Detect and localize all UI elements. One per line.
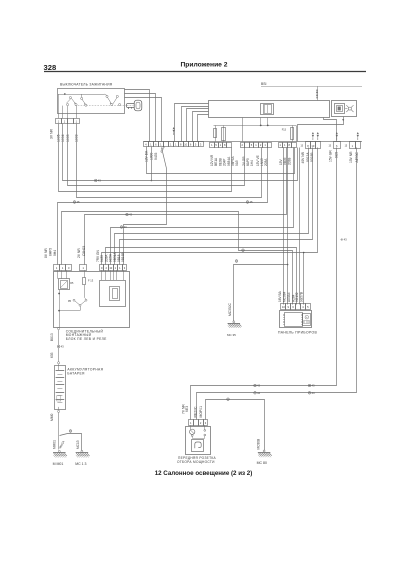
wire labels under right pins a xyxy=(301,151,314,163)
svg-text:9G57B: 9G57B xyxy=(299,292,303,302)
socket connector strip xyxy=(189,420,194,426)
svg-text:⊕ 43: ⊕ 43 xyxy=(341,237,348,241)
block internal connector square xyxy=(100,281,126,307)
svg-text:F13: F13 xyxy=(282,129,287,132)
BSI top line xyxy=(261,86,362,88)
svg-text:MM01: MM01 xyxy=(52,440,56,449)
ground branch to MC13 xyxy=(52,430,81,451)
battery label xyxy=(67,367,103,375)
svg-text:C8H15: C8H15 xyxy=(82,246,86,256)
block pin labels g1 xyxy=(44,248,57,258)
svg-text:БАТАРЕЯ: БАТАРЕЯ xyxy=(67,371,85,375)
svg-text:43: 43 xyxy=(61,345,65,349)
svg-text:ВЫКЛЮЧАТЕЛЬ ЗАЖИГАНИЯ: ВЫКЛЮЧАТЕЛЬ ЗАЖИГАНИЯ xyxy=(60,83,113,87)
BSI connector pin right b xyxy=(334,142,341,149)
ignition wire labels xyxy=(50,128,79,142)
wire labels under right pins c xyxy=(349,151,359,163)
splice arrows above pin 173 xyxy=(173,127,175,129)
block internal relay xyxy=(58,270,75,289)
svg-text:2V NR: 2V NR xyxy=(77,248,81,258)
fuse F13 bsi xyxy=(282,125,294,141)
wire panel col2 with MC35 tap xyxy=(287,148,289,305)
svg-text:43: 43 xyxy=(257,384,261,388)
battery box xyxy=(55,366,66,410)
svg-text:MC35JC: MC35JC xyxy=(228,303,232,316)
wire labels under S2a xyxy=(210,154,239,166)
BSI unit box xyxy=(209,101,330,118)
ignition switch box xyxy=(58,89,125,114)
panel connector strip xyxy=(281,304,286,310)
svg-text:MM0: MM0 xyxy=(50,414,54,421)
svg-text:PR: PR xyxy=(68,301,72,303)
panel connector labels xyxy=(278,290,303,302)
wires ignition box to pins xyxy=(59,106,77,119)
wire block pin g3p3 band y229 xyxy=(111,148,294,265)
wire BSI left edge loop g xyxy=(193,112,209,142)
svg-text:9A5: 9A5 xyxy=(235,160,239,166)
socket heater element xyxy=(192,440,204,452)
svg-text:МС 80: МС 80 xyxy=(257,461,267,465)
wire S1 pin down band y173 xyxy=(147,147,295,174)
block internal connector feed wires xyxy=(102,270,124,280)
svg-text:12 Салонное освещение (2 из 2): 12 Салонное освещение (2 из 2) xyxy=(155,470,253,477)
svg-text:44: 44 xyxy=(312,391,316,395)
wire ground MC35 xyxy=(228,260,288,322)
svg-text:BSI: BSI xyxy=(261,82,267,86)
header rule xyxy=(44,71,366,73)
wire BSI box to right pin xyxy=(324,118,337,142)
BSI connector strip S2a xyxy=(210,143,215,148)
wire BSI left edge loop f xyxy=(187,109,209,142)
BSI connector pins right c xyxy=(350,142,356,149)
block connector strip g1 xyxy=(54,265,60,271)
block connector strip g3 xyxy=(100,265,104,271)
svg-text:MOP01: MOP01 xyxy=(199,406,203,418)
panel internal connector xyxy=(283,313,303,327)
svg-text:RE20C: RE20C xyxy=(194,406,198,417)
wire panel col1 xyxy=(283,148,285,305)
wire block pin g3p4 band y235 xyxy=(115,148,309,265)
ground MC80 xyxy=(257,439,272,465)
svg-text:43: 43 xyxy=(312,384,316,388)
wire BSI left edge loop e xyxy=(182,107,209,142)
ground MC35 xyxy=(227,321,241,337)
BSI internal relay xyxy=(261,104,274,115)
BSI internal bus xyxy=(214,118,297,142)
BSI accessory icon box xyxy=(332,101,357,117)
block connector strip g2 xyxy=(80,265,87,271)
splice arrows right c xyxy=(357,132,359,134)
wire block pin g3p1 band y252 to panel xyxy=(102,148,318,305)
svg-text:VE3: VE3 xyxy=(185,406,189,412)
block bottom terminal xyxy=(50,328,60,346)
splice arrows right a xyxy=(312,132,314,134)
relay coil element xyxy=(222,125,226,141)
wire BSI left edge loop h xyxy=(198,115,209,142)
socket box xyxy=(186,427,211,455)
wire ignition pin4 band y197 xyxy=(77,124,262,198)
svg-text:MC084: MC084 xyxy=(282,291,286,302)
svg-text:F 13: F 13 xyxy=(88,279,94,283)
svg-text:44: 44 xyxy=(257,391,261,395)
wire ignition to BSI pin a xyxy=(125,90,150,142)
instrument panel box xyxy=(280,311,312,328)
wire block pin g1p1 band y202 xyxy=(58,148,268,265)
ground MM01 xyxy=(53,450,67,466)
wire ignition pin3 band y185 xyxy=(68,124,245,186)
wire BSI left edge loop d xyxy=(175,104,209,142)
wire labels under S1 xyxy=(144,145,166,162)
svg-text:40V NR: 40V NR xyxy=(301,151,305,163)
svg-text:45: 45 xyxy=(77,200,81,204)
wire labels under right pin b xyxy=(329,150,339,162)
svg-text:9B16B: 9B16B xyxy=(121,252,125,262)
wire BSI icon box down-left xyxy=(298,117,345,142)
svg-text:15V NR: 15V NR xyxy=(349,151,353,163)
svg-text:MC80B: MC80B xyxy=(257,439,261,450)
panel internal rheostat icon xyxy=(303,314,311,326)
socket wire labels xyxy=(181,404,203,418)
svg-text:MC13: MC13 xyxy=(76,440,80,449)
wire block pin g1p2 band y211 to panel xyxy=(62,212,293,305)
svg-text:603: 603 xyxy=(50,352,54,358)
wire labels under S2c xyxy=(279,157,291,165)
ignition key symbol xyxy=(124,100,142,111)
svg-text:9435: 9435 xyxy=(154,152,158,160)
ground MC13 xyxy=(75,450,89,466)
battery cells xyxy=(56,364,65,410)
socket lamp symbol xyxy=(190,425,206,438)
battery bottom terminal xyxy=(50,410,60,449)
wire right column to socket pin2 xyxy=(191,148,337,420)
svg-text:15V GR: 15V GR xyxy=(329,150,333,162)
wire ignition to BSI pin b xyxy=(125,94,156,142)
wire panel col3 xyxy=(299,148,301,305)
svg-text:45: 45 xyxy=(250,200,254,204)
svg-text:1H4: 1H4 xyxy=(250,160,254,166)
svg-text:B813: B813 xyxy=(50,333,54,341)
BSI connector pins right a xyxy=(306,142,311,149)
svg-text:ПАНЕЛЬ ПРИБОРОВ: ПАНЕЛЬ ПРИБОРОВ xyxy=(278,330,317,334)
wire block pin g3p2 band y247 to panel xyxy=(106,248,297,305)
svg-text:MC 35: MC 35 xyxy=(227,333,236,337)
wire labels under S2b xyxy=(242,155,268,166)
battery wire splice 43 xyxy=(50,345,64,362)
svg-text:43: 43 xyxy=(98,179,102,183)
block fuse F13 xyxy=(83,270,94,297)
block internal contact xyxy=(59,297,87,311)
svg-text:М М01: М М01 xyxy=(53,462,64,466)
svg-text:БЛОК ПЕ ЛЕВ И РЕЛЕ: БЛОК ПЕ ЛЕВ И РЕЛЕ xyxy=(66,337,107,341)
wire block pin g3p5 band y242 xyxy=(120,148,313,265)
svg-text:Приложение 2: Приложение 2 xyxy=(181,62,228,69)
splice arrows right b xyxy=(336,132,338,134)
fuse and relay block box xyxy=(54,272,130,328)
wire block pin g3p6 band y224 xyxy=(124,148,167,265)
ignition connector pins xyxy=(56,119,62,124)
block pin labels g2 xyxy=(77,246,86,258)
svg-text:3V NR: 3V NR xyxy=(50,128,54,139)
block internal wiring left xyxy=(58,290,60,328)
svg-text:328: 328 xyxy=(44,63,57,72)
ignition switch actuation dashed line xyxy=(75,105,124,107)
socket caption xyxy=(177,456,217,464)
BSI connector strip S2b xyxy=(241,143,245,148)
svg-text:ОТБОРА МОЩНОСТИ: ОТБОРА МОЩНОСТИ xyxy=(177,460,215,464)
fuse F1 xyxy=(214,125,217,141)
svg-text:203B: 203B xyxy=(287,158,291,165)
svg-text:8V NR: 8V NR xyxy=(44,248,48,258)
svg-text:МС 1 3: МС 1 3 xyxy=(75,462,86,466)
wire ignition pin1 band y191 xyxy=(59,124,232,192)
svg-text:8HF5: 8HF5 xyxy=(49,248,53,256)
wire right column to socket pin3 xyxy=(197,148,357,420)
wire socket pin4 to ground MC80 xyxy=(206,398,265,451)
wire ignition to BSI pin c xyxy=(125,98,162,142)
ignition switch contacts xyxy=(58,93,120,113)
block pin labels g3 xyxy=(96,249,125,262)
block caption text xyxy=(66,329,107,341)
BSI splice arrow to top line xyxy=(316,86,318,100)
wire block pin g2 band y214 xyxy=(85,148,287,265)
svg-text:9H4: 9H4 xyxy=(53,250,57,256)
BSI connector strip S1 xyxy=(144,142,149,147)
wire ignition pin2 band y180 xyxy=(63,124,298,183)
connector row bus line xyxy=(143,141,362,143)
BSI connector strip S2c xyxy=(279,143,283,148)
svg-text:43: 43 xyxy=(129,213,133,217)
wire S1 stub 151 xyxy=(151,147,153,182)
battery top terminal xyxy=(58,362,60,364)
svg-text:1004: 1004 xyxy=(61,134,65,142)
svg-text:44: 44 xyxy=(124,225,128,229)
